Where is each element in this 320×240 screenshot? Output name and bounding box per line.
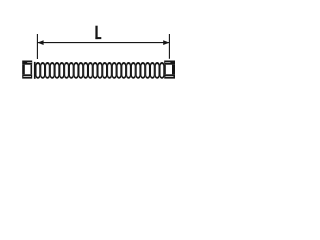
- hose corrugations: [36, 62, 165, 79]
- dimension line: [37, 42, 169, 44]
- left extension line: [36, 34, 38, 59]
- right extension line: [168, 34, 170, 59]
- hose end collar: [34, 62, 36, 79]
- right arrowhead: [163, 40, 169, 45]
- left fitting nut: [22, 61, 32, 79]
- left arrowhead: [37, 40, 43, 45]
- dimension label L: [95, 26, 101, 39]
- right fitting nut: [164, 61, 175, 79]
